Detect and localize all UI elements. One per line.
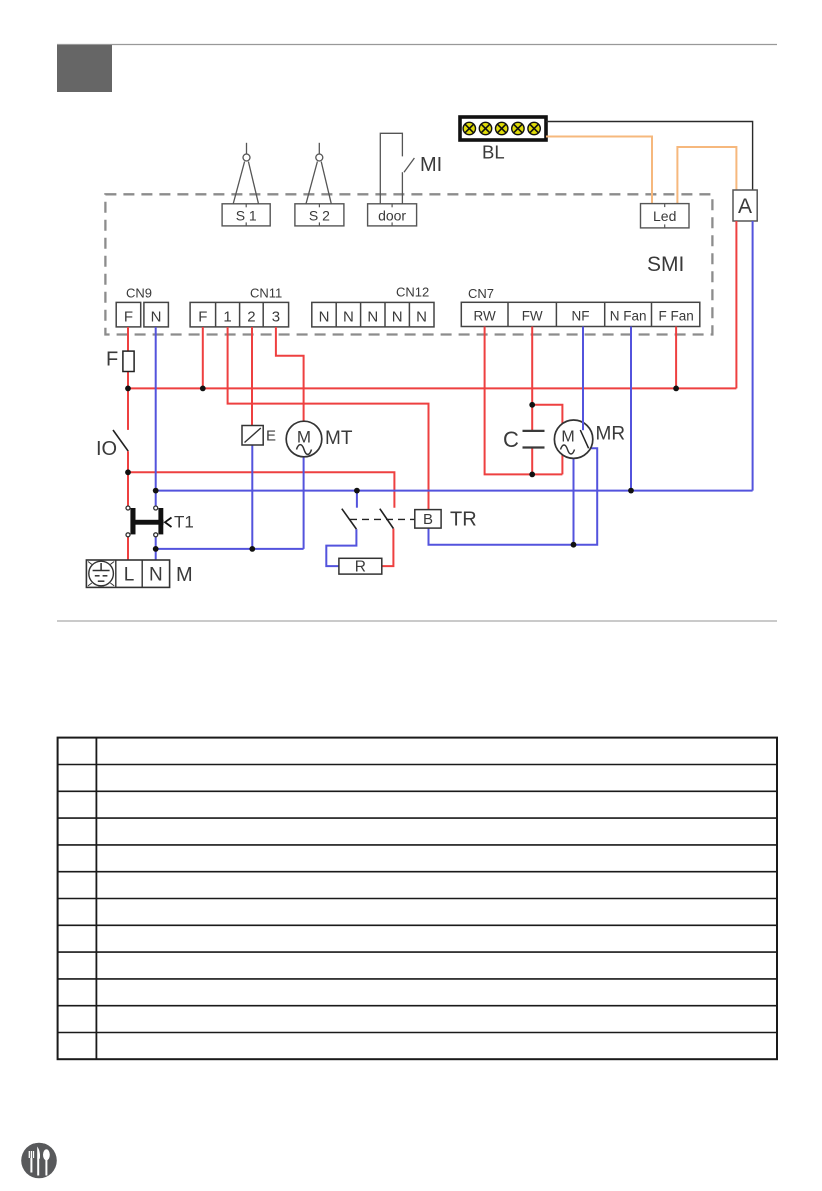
lamp L4 bbox=[512, 122, 524, 134]
door switch MI wiring bbox=[380, 133, 414, 204]
svg-text:N: N bbox=[319, 309, 330, 326]
svg-text:R: R bbox=[355, 559, 366, 576]
motor MR bbox=[554, 420, 625, 458]
footer logo bbox=[21, 1143, 57, 1179]
svg-text:2: 2 bbox=[247, 309, 255, 326]
fork bbox=[29, 1151, 33, 1173]
wire IO to node (red) bbox=[127, 451, 129, 506]
switch IO blade bbox=[113, 430, 128, 451]
blue bus bbox=[156, 490, 753, 492]
sensor probe S2 symbol bbox=[306, 143, 331, 204]
box Led bbox=[641, 204, 690, 228]
connector CN9 bbox=[116, 302, 168, 327]
wire CN9-F to fuse to IO (red) bbox=[127, 327, 129, 351]
wire BL to Led (orange) bbox=[546, 137, 652, 204]
node switch1-bus bbox=[354, 488, 360, 494]
svg-text:M: M bbox=[176, 564, 193, 586]
svg-text:CN7: CN7 bbox=[468, 286, 494, 301]
svg-text:C: C bbox=[503, 427, 519, 452]
svg-text:N: N bbox=[343, 309, 354, 326]
node CN11F-bus bbox=[200, 386, 206, 392]
lamp L5 bbox=[528, 122, 540, 134]
node FFan-bus bbox=[673, 386, 679, 392]
svg-text:S 1: S 1 bbox=[236, 208, 257, 224]
wire switch2 to R (red) bbox=[382, 529, 394, 567]
node N-bus bbox=[153, 488, 159, 494]
box A bbox=[733, 190, 757, 221]
wire CN11-3 to MT (red) bbox=[276, 327, 304, 421]
node IO branch bbox=[125, 469, 131, 475]
wire A to red bus bbox=[735, 221, 737, 388]
sensor box S1 bbox=[222, 204, 270, 226]
svg-text:F: F bbox=[124, 309, 133, 326]
lamp L1 bbox=[463, 122, 475, 134]
svg-text:3: 3 bbox=[272, 309, 280, 326]
svg-text:A: A bbox=[738, 195, 752, 218]
capacitor C bbox=[503, 427, 545, 452]
wire CN11-2 to E (red) bbox=[251, 327, 253, 426]
wire CN7-NF to MR (blue) bbox=[582, 327, 584, 431]
svg-text:N Fan: N Fan bbox=[610, 309, 647, 324]
svg-text:L: L bbox=[124, 565, 135, 586]
connector CN7 pins RW FW NF N-Fan F-Fan bbox=[461, 302, 700, 326]
spoon bbox=[43, 1149, 50, 1160]
SMI dashed enclosure bbox=[105, 194, 712, 334]
wire bus to switch1 (blue) bbox=[356, 491, 358, 508]
lamp L3 bbox=[496, 122, 508, 134]
svg-text:IO: IO bbox=[96, 438, 117, 460]
svg-text:M: M bbox=[561, 429, 574, 446]
lamp strip BL bbox=[460, 117, 546, 140]
wire CN11-1 to TR coil (red) bbox=[228, 327, 429, 510]
svg-text:F Fan: F Fan bbox=[658, 309, 693, 324]
svg-text:CN9: CN9 bbox=[126, 286, 152, 301]
svg-text:N: N bbox=[392, 309, 403, 326]
wire A to blue bus bbox=[752, 221, 754, 491]
wire E to neutral (blue) bbox=[251, 445, 253, 549]
svg-text:M: M bbox=[297, 428, 311, 447]
top rule bbox=[57, 44, 777, 46]
thermostat T1 bbox=[126, 506, 194, 537]
svg-text:1: 1 bbox=[223, 309, 231, 326]
svg-text:MI: MI bbox=[420, 154, 442, 176]
svg-text:CN12: CN12 bbox=[396, 285, 429, 300]
wire T1 to M-N (blue) bbox=[155, 537, 157, 560]
svg-text:MR: MR bbox=[596, 424, 626, 445]
sensor box S2 bbox=[295, 204, 344, 226]
svg-text:S 2: S 2 bbox=[309, 208, 330, 224]
wire CN7-FW to C top (red) bbox=[531, 327, 533, 431]
wire CN7-NFan to bus (blue) bbox=[630, 327, 632, 491]
svg-text:BL: BL bbox=[482, 142, 505, 163]
svg-text:TR: TR bbox=[450, 509, 477, 531]
node T1 neutral bbox=[153, 546, 159, 552]
svg-text:N: N bbox=[151, 309, 162, 326]
node NFan-bus bbox=[628, 488, 634, 494]
svg-text:N: N bbox=[416, 309, 427, 326]
connector CN11 pins F 1 2 3 bbox=[190, 302, 289, 327]
svg-text:door: door bbox=[378, 208, 406, 224]
wire T1 to M-L (red) bbox=[127, 537, 129, 560]
wire node to switch2 (red) bbox=[128, 472, 394, 507]
svg-text:F: F bbox=[198, 309, 207, 326]
wire MT to neutral (blue) bbox=[303, 457, 305, 549]
svg-text:E: E bbox=[266, 428, 276, 445]
sensor box door bbox=[368, 204, 417, 226]
ground symbol bbox=[88, 561, 114, 586]
node FW-C bbox=[529, 402, 535, 408]
svg-text:B: B bbox=[423, 511, 433, 528]
svg-text:F: F bbox=[106, 349, 118, 371]
svg-text:FW: FW bbox=[522, 309, 543, 324]
node C bottom bbox=[529, 472, 535, 478]
svg-text:NF: NF bbox=[572, 309, 590, 324]
wire CN9-N down (blue) bbox=[155, 327, 157, 506]
blue neutral branch to E and MT bbox=[156, 548, 304, 550]
sensor probe S1 symbol bbox=[233, 143, 258, 204]
mid rule bbox=[57, 620, 777, 622]
svg-text:CN11: CN11 bbox=[250, 286, 282, 301]
heater E bbox=[242, 426, 276, 446]
linkage dashed bbox=[350, 518, 415, 520]
red bus bbox=[128, 387, 736, 389]
lamp L2 bbox=[479, 122, 491, 134]
switch contact 1 (to R) bbox=[342, 509, 357, 529]
knife bbox=[37, 1147, 40, 1159]
section header gray square bbox=[57, 45, 112, 92]
mains terminal M bbox=[86, 560, 192, 587]
svg-text:SMI: SMI bbox=[647, 253, 684, 276]
relay coil B bbox=[415, 510, 441, 528]
wire CN7-RW to C bottom (red) bbox=[485, 327, 563, 475]
node MR-TR bbox=[571, 542, 577, 548]
wire BL to A (black) bbox=[546, 122, 753, 191]
switch contact 2 (to R) bbox=[380, 509, 394, 529]
svg-text:N: N bbox=[149, 565, 163, 586]
motor MT bbox=[286, 421, 353, 457]
resistor R bbox=[339, 558, 382, 575]
connector CN12 pins N N N N N bbox=[312, 302, 434, 327]
svg-text:Led: Led bbox=[653, 208, 676, 224]
wire MR bottom to TR bus (blue) bbox=[573, 458, 575, 545]
wire CN11-F to bus (red) bbox=[202, 327, 204, 388]
svg-text:MT: MT bbox=[325, 428, 353, 449]
wire C bottom segment (red) bbox=[531, 448, 533, 475]
node E neutral bbox=[249, 546, 255, 552]
fuse F bbox=[106, 349, 134, 372]
node fuse-bus bbox=[125, 386, 131, 392]
svg-text:RW: RW bbox=[473, 309, 496, 324]
svg-text:T1: T1 bbox=[174, 513, 194, 532]
wire Led to A (orange) bbox=[677, 147, 736, 204]
junction node dots bbox=[125, 386, 679, 552]
svg-text:N: N bbox=[367, 309, 378, 326]
wire switch1 to R (blue) bbox=[326, 529, 356, 566]
wire CN7-FFan to bus (red) bbox=[675, 327, 677, 389]
wire TR to MR (blue) bbox=[429, 448, 598, 544]
wire FW branch to MR (red) bbox=[532, 405, 562, 475]
